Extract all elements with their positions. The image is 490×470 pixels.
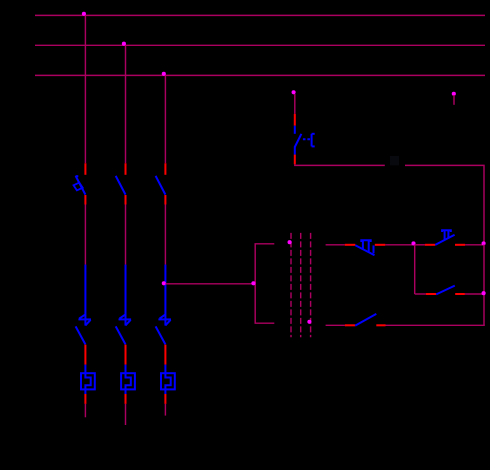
node L2 junction dot <box>122 42 126 46</box>
node control top right dot <box>482 241 486 245</box>
wire control feed drop <box>294 94 296 114</box>
node branch to transformer on phase C <box>162 281 166 285</box>
pin QS pole1 bottom <box>84 195 86 205</box>
node transformer secondary bottom dot <box>307 320 311 324</box>
wire phase A drop <box>84 15 86 163</box>
pushbutton SB contact <box>295 126 302 155</box>
node transformer secondary top dot <box>288 240 292 244</box>
switch QS pole 1 blade <box>76 176 86 195</box>
pin KM aux2 right <box>376 324 385 326</box>
pin KM2 bottom <box>125 345 127 365</box>
switch QS pole 3 blade <box>156 176 166 195</box>
power rail L1 <box>35 14 485 16</box>
stop button SB1 actuator <box>361 240 370 252</box>
wire control bus upper right <box>405 165 484 244</box>
pin SB2 left <box>425 244 435 246</box>
wire right bus <box>483 245 485 326</box>
pin FR2 bottom <box>125 394 127 404</box>
wire phase B drop <box>125 45 127 163</box>
start button SB2 actuator <box>442 230 451 240</box>
wire blue lead into KM pole2 <box>125 265 127 320</box>
contactor KM main contact 1 <box>76 314 91 344</box>
node control feed dot <box>292 90 296 94</box>
thermal overload FR heater 2 <box>121 365 135 394</box>
pin FR3 bottom <box>164 394 166 404</box>
wire bottom return <box>386 324 485 326</box>
node L3 junction dot <box>162 72 166 76</box>
pin KM1 bottom <box>84 345 86 365</box>
node control top left dot <box>411 241 415 245</box>
pin QS pole2 top <box>125 163 127 175</box>
pin QS pole2 bottom <box>125 195 127 205</box>
pin SB2 right <box>455 244 465 246</box>
wire motor lead W <box>164 404 166 416</box>
wire control bus upper left <box>295 164 385 165</box>
thermal overload FR heater 1 <box>81 365 95 394</box>
wire motor lead U <box>84 404 86 417</box>
wire left branch down <box>414 245 416 294</box>
wire SB1 to node <box>385 244 414 246</box>
contactor KM main contact 2 <box>116 314 131 344</box>
wire QS to KM pole2 <box>125 205 127 265</box>
wire stub <box>453 95 455 105</box>
wire transformer feed <box>165 283 255 285</box>
node stub terminal dot <box>452 92 456 96</box>
thermal overload FR heater 3 <box>161 365 175 394</box>
wire node to SB2 <box>415 244 425 246</box>
wire QS to KM pole1 <box>84 205 86 265</box>
pin SB bottom <box>294 155 296 165</box>
contactor KM auxiliary contact 2 <box>355 314 376 326</box>
pin KM3 bottom <box>164 345 166 365</box>
wire QS to KM pole3 <box>164 205 166 265</box>
pin QS pole1 top <box>84 163 86 175</box>
stop button SB1 contact <box>355 245 374 255</box>
pin KM aux2 left <box>345 324 355 326</box>
wire KM aux to right bus <box>465 293 484 295</box>
pin QS pole3 bottom <box>164 195 166 205</box>
wire phase C drop <box>164 75 166 163</box>
pin FR1 bottom <box>84 394 86 404</box>
wire motor lead V <box>125 404 127 425</box>
node L1 junction dot <box>82 12 86 16</box>
power rail L3 <box>35 74 485 76</box>
transformer secondary bottom arm <box>326 324 345 326</box>
pin KM aux right <box>455 293 465 295</box>
contactor KM main contact 3 <box>156 314 171 344</box>
wire node to KM aux <box>415 293 426 295</box>
pin SB1 right <box>375 244 386 246</box>
switch QS pole 2 blade <box>116 176 126 195</box>
pin SB1 left <box>345 244 356 246</box>
contactor KM auxiliary contact <box>436 286 455 295</box>
fuse ghost element in gap <box>390 156 399 165</box>
switch QS operating handle square <box>74 183 83 191</box>
start button SB2 contact <box>435 235 454 245</box>
node transformer input dot <box>251 281 255 285</box>
transformer secondary top arm <box>326 244 345 246</box>
wire blue lead into KM pole1 <box>84 265 86 320</box>
pushbutton SB actuator <box>303 134 315 147</box>
wire SB2 to right bus <box>465 244 484 246</box>
node control mid right dot <box>482 291 486 295</box>
pin SB top <box>294 114 296 126</box>
wire blue lead into KM pole3 <box>164 265 166 320</box>
transformer TC primary winding <box>255 244 274 323</box>
power rail L2 <box>35 44 485 46</box>
transformer TC core <box>291 233 311 337</box>
pin QS pole3 top <box>164 163 166 175</box>
pin KM aux left <box>426 293 436 295</box>
